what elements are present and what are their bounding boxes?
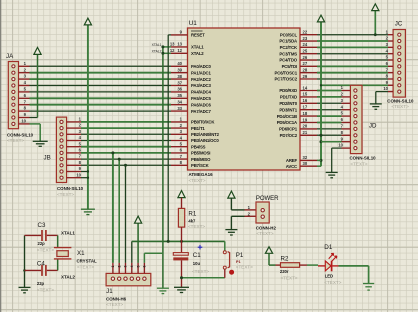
svg-text:34: 34 bbox=[177, 100, 182, 105]
svg-text:P1: P1 bbox=[236, 260, 241, 264]
svg-text:PC3/TMS: PC3/TMS bbox=[279, 51, 297, 56]
svg-text:XTAL2: XTAL2 bbox=[191, 51, 204, 56]
svg-text:19: 19 bbox=[303, 117, 308, 122]
svg-text:PB6/MISO: PB6/MISO bbox=[191, 157, 211, 162]
svg-text:RESET: RESET bbox=[191, 33, 205, 38]
svg-text:XTAL1: XTAL1 bbox=[61, 231, 75, 236]
svg-text:U1: U1 bbox=[189, 20, 198, 27]
svg-text:JC: JC bbox=[395, 21, 403, 28]
svg-text:PC6/TOSC1: PC6/TOSC1 bbox=[275, 70, 298, 75]
svg-text:PA1/ADC1: PA1/ADC1 bbox=[191, 70, 211, 75]
svg-text:PB2/AIN0/INT2: PB2/AIN0/INT2 bbox=[191, 132, 220, 137]
svg-text:<TEXT>: <TEXT> bbox=[256, 231, 273, 236]
svg-text:AVCC: AVCC bbox=[286, 164, 297, 169]
svg-text:PD4/OC1B: PD4/OC1B bbox=[277, 114, 297, 119]
svg-text:24: 24 bbox=[303, 42, 308, 47]
svg-text:LED: LED bbox=[325, 273, 333, 278]
svg-text:29: 29 bbox=[303, 74, 308, 79]
svg-text:18: 18 bbox=[303, 111, 308, 116]
svg-text:JA: JA bbox=[6, 53, 14, 60]
svg-text:C3: C3 bbox=[38, 222, 46, 229]
svg-text:P1: P1 bbox=[236, 252, 244, 259]
svg-text:14: 14 bbox=[303, 85, 308, 90]
svg-text:35: 35 bbox=[177, 93, 182, 98]
svg-text:R2: R2 bbox=[281, 255, 289, 262]
svg-text:JB: JB bbox=[44, 154, 51, 161]
svg-text:12: 12 bbox=[177, 48, 182, 53]
svg-text:<TEXT>: <TEXT> bbox=[324, 280, 341, 285]
svg-text:PA2/ADC2: PA2/ADC2 bbox=[191, 77, 211, 82]
svg-text:PC7/TOSC2: PC7/TOSC2 bbox=[275, 77, 298, 82]
svg-text:PD1/TXD: PD1/TXD bbox=[280, 95, 297, 100]
svg-text:15: 15 bbox=[303, 92, 308, 97]
svg-text:PA5/ADC5: PA5/ADC5 bbox=[191, 96, 211, 101]
svg-text:<TEXT>: <TEXT> bbox=[281, 275, 298, 280]
svg-text:22p: 22p bbox=[37, 281, 45, 286]
svg-text:13: 13 bbox=[177, 42, 182, 47]
svg-text:C4: C4 bbox=[37, 261, 45, 268]
svg-text:PB1/T1: PB1/T1 bbox=[191, 126, 205, 131]
svg-text:<TEXT>: <TEXT> bbox=[106, 302, 123, 307]
svg-text:10: 10 bbox=[21, 119, 26, 124]
svg-text:PB3/AIN1/OC0: PB3/AIN1/OC0 bbox=[191, 138, 219, 143]
svg-text:38: 38 bbox=[177, 74, 182, 79]
svg-text:XTAL2: XTAL2 bbox=[61, 275, 75, 280]
svg-text:PD0/RXD: PD0/RXD bbox=[279, 88, 297, 93]
svg-text:PC2/TCK: PC2/TCK bbox=[280, 45, 298, 50]
svg-text:PD2/INT0: PD2/INT0 bbox=[279, 101, 297, 106]
svg-text:27: 27 bbox=[303, 61, 308, 66]
svg-text:D1: D1 bbox=[324, 244, 333, 251]
svg-text:CONN-SIL10: CONN-SIL10 bbox=[57, 186, 84, 191]
svg-text:<TEXT>: <TEXT> bbox=[189, 178, 206, 183]
svg-text:26: 26 bbox=[303, 55, 308, 60]
svg-text:10: 10 bbox=[76, 172, 81, 177]
svg-text:PB4/SS: PB4/SS bbox=[191, 144, 206, 149]
svg-text:X1: X1 bbox=[77, 250, 85, 257]
svg-text:5: 5 bbox=[136, 266, 140, 268]
svg-text:XTAL1: XTAL1 bbox=[191, 45, 204, 50]
svg-text:PB5/MOSI: PB5/MOSI bbox=[191, 151, 210, 156]
svg-text:10: 10 bbox=[383, 86, 388, 91]
svg-text:3: 3 bbox=[124, 266, 128, 268]
svg-text:21: 21 bbox=[303, 130, 308, 135]
svg-text:28: 28 bbox=[303, 67, 308, 72]
svg-text:XTAL1: XTAL1 bbox=[152, 43, 162, 47]
svg-text:<TEXT>: <TEXT> bbox=[391, 104, 409, 109]
svg-text:PA4/ADC4: PA4/ADC4 bbox=[191, 90, 211, 95]
svg-text:PA6/ADC6: PA6/ADC6 bbox=[191, 102, 211, 107]
svg-text:<TEXT>: <TEXT> bbox=[37, 247, 54, 252]
svg-text:4: 4 bbox=[130, 266, 134, 268]
svg-text:PD6/ICP1: PD6/ICP1 bbox=[279, 127, 298, 132]
svg-text:30: 30 bbox=[303, 161, 308, 166]
svg-text:PC0/SCL: PC0/SCL bbox=[280, 32, 298, 37]
svg-text:JD: JD bbox=[369, 122, 377, 129]
svg-text:<TEXT>: <TEXT> bbox=[77, 264, 94, 269]
svg-text:32: 32 bbox=[303, 155, 308, 160]
svg-text:CONN-H2: CONN-H2 bbox=[256, 225, 277, 230]
svg-text:10: 10 bbox=[338, 143, 343, 148]
svg-text:PA0/ADC0: PA0/ADC0 bbox=[191, 64, 211, 69]
svg-text:12: 12 bbox=[170, 48, 175, 53]
svg-text:220r: 220r bbox=[280, 269, 289, 274]
svg-text:13: 13 bbox=[170, 42, 175, 47]
svg-text:40: 40 bbox=[177, 61, 182, 66]
svg-text:PA3/ADC3: PA3/ADC3 bbox=[191, 83, 211, 88]
svg-text:J1: J1 bbox=[106, 288, 113, 295]
svg-text:<TEXT>: <TEXT> bbox=[37, 287, 54, 292]
svg-text:PB0/T0/XCK: PB0/T0/XCK bbox=[191, 120, 215, 125]
svg-text:17: 17 bbox=[303, 105, 308, 110]
svg-text:PA7/ADC7: PA7/ADC7 bbox=[191, 109, 211, 114]
svg-text:CONN-H6: CONN-H6 bbox=[106, 296, 127, 301]
svg-text:R1: R1 bbox=[188, 210, 196, 217]
svg-text:<TEXT>: <TEXT> bbox=[7, 138, 24, 143]
svg-text:16: 16 bbox=[303, 98, 308, 103]
svg-text:22: 22 bbox=[303, 30, 308, 35]
svg-text:<TEXT>: <TEXT> bbox=[350, 162, 367, 167]
svg-text:6: 6 bbox=[143, 266, 147, 268]
svg-text:23: 23 bbox=[303, 36, 308, 41]
svg-text:PC4/TDO: PC4/TDO bbox=[279, 58, 297, 63]
svg-text:PB7/SCK: PB7/SCK bbox=[191, 163, 210, 168]
svg-text:PC1/SDA: PC1/SDA bbox=[279, 39, 297, 44]
svg-text:39: 39 bbox=[177, 68, 182, 73]
svg-text:20: 20 bbox=[303, 124, 308, 129]
svg-text:37: 37 bbox=[177, 80, 182, 85]
svg-text:<TEXT>: <TEXT> bbox=[236, 265, 253, 270]
svg-text:1: 1 bbox=[111, 266, 115, 268]
svg-text:<TEXT>: <TEXT> bbox=[192, 269, 209, 274]
svg-text:CRYSTAL: CRYSTAL bbox=[77, 259, 98, 264]
svg-text:<TEXT>: <TEXT> bbox=[57, 192, 74, 197]
svg-text:<TEXT>: <TEXT> bbox=[188, 224, 205, 229]
svg-text:ATMEGA16: ATMEGA16 bbox=[189, 172, 214, 177]
svg-text:PC5/TDI: PC5/TDI bbox=[282, 64, 297, 69]
svg-text:AREF: AREF bbox=[286, 158, 298, 163]
svg-text:CONN-SIL10: CONN-SIL10 bbox=[7, 132, 34, 137]
svg-text:22p: 22p bbox=[38, 241, 46, 246]
svg-text:PD5/OC1A: PD5/OC1A bbox=[277, 120, 297, 125]
svg-text:10u: 10u bbox=[193, 261, 201, 266]
svg-text:4k7: 4k7 bbox=[188, 218, 196, 223]
svg-text:XTAL2: XTAL2 bbox=[152, 49, 162, 53]
svg-text:33: 33 bbox=[177, 106, 182, 111]
svg-text:PD3/INT1: PD3/INT1 bbox=[279, 107, 297, 112]
svg-text:25: 25 bbox=[303, 48, 308, 53]
svg-text:36: 36 bbox=[177, 87, 182, 92]
svg-text:CONN-SIL10: CONN-SIL10 bbox=[350, 156, 377, 161]
svg-text:C1: C1 bbox=[193, 252, 201, 259]
svg-text:2: 2 bbox=[117, 266, 121, 268]
svg-text:POWER: POWER bbox=[256, 195, 279, 202]
svg-text:PD7/OC2: PD7/OC2 bbox=[280, 133, 298, 138]
